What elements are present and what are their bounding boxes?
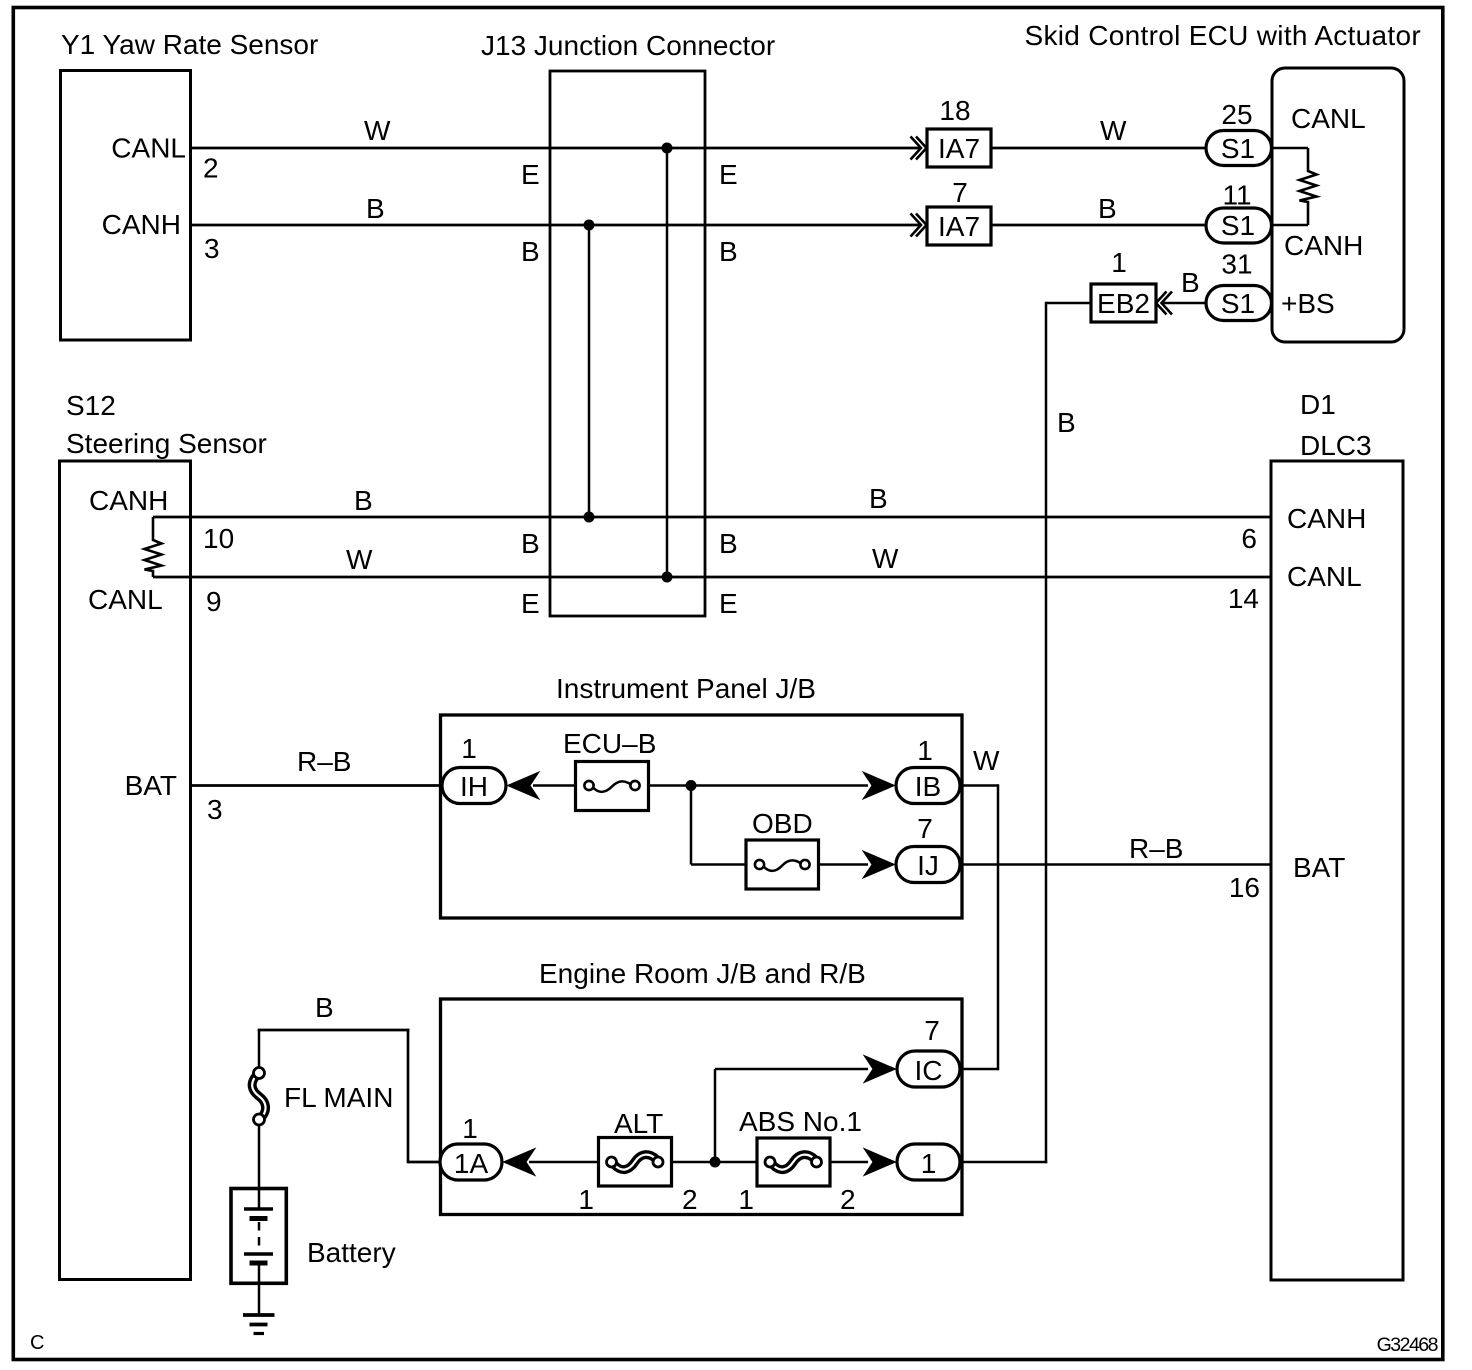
svg-text:E: E bbox=[719, 159, 738, 190]
fuse OBD element bbox=[755, 860, 764, 869]
junction node on CANH in J13 bbox=[584, 220, 595, 231]
ground bbox=[243, 1313, 275, 1317]
connector IA7 (W wire) bbox=[927, 129, 991, 167]
wire W: IB down to IC bbox=[960, 784, 998, 787]
svg-text:Instrument Panel J/B: Instrument Panel J/B bbox=[556, 673, 816, 704]
junction node lower CANL in J13 bbox=[662, 572, 673, 583]
svg-text:1: 1 bbox=[738, 1184, 754, 1215]
svg-text:6: 6 bbox=[1241, 523, 1257, 554]
svg-text:B: B bbox=[719, 528, 738, 559]
junction node at ALT output bbox=[710, 1157, 721, 1168]
wire R-B: IJ to DLC3 pin16 bbox=[960, 863, 1271, 866]
svg-text:7: 7 bbox=[952, 177, 968, 208]
svg-text:CANH: CANH bbox=[89, 485, 168, 516]
svg-text:Battery: Battery bbox=[307, 1237, 396, 1268]
connector IA7 pin 7 chevron bbox=[911, 214, 927, 237]
connector S1 pin 31 bbox=[1206, 286, 1272, 321]
wire: branch up to IC bbox=[714, 1069, 717, 1162]
svg-text:7: 7 bbox=[924, 1015, 940, 1046]
svg-text:R–B: R–B bbox=[1129, 833, 1183, 864]
svg-text:CANH: CANH bbox=[102, 209, 181, 240]
svg-text:E: E bbox=[521, 588, 540, 619]
svg-text:S12: S12 bbox=[66, 390, 116, 421]
wire R-B: S12 BAT to IH bbox=[191, 784, 444, 787]
svg-text:1: 1 bbox=[917, 735, 933, 766]
svg-text:DLC3: DLC3 bbox=[1300, 430, 1372, 461]
connector S1 pin 11 bbox=[1206, 208, 1272, 243]
fusible link FL MAIN bbox=[258, 1030, 261, 1068]
svg-text:CANL: CANL bbox=[1291, 103, 1366, 134]
fuse OBD box bbox=[746, 840, 819, 889]
junction node lower CANH in J13 bbox=[584, 512, 595, 523]
svg-text:B: B bbox=[366, 193, 385, 224]
svg-text:IA7: IA7 bbox=[938, 133, 980, 164]
D1 DLC3 box bbox=[1271, 461, 1403, 1280]
connector 1A bbox=[440, 1144, 502, 1180]
svg-text:W: W bbox=[346, 544, 373, 575]
svg-text:CANH: CANH bbox=[1287, 503, 1366, 534]
wire B: EB2 down to engine room bbox=[1046, 302, 1091, 305]
svg-text:18: 18 bbox=[939, 95, 970, 126]
svg-text:S1: S1 bbox=[1221, 288, 1255, 319]
arrow into IB bbox=[863, 772, 895, 799]
svg-text:D1: D1 bbox=[1300, 389, 1336, 420]
wire: battery to ground bbox=[258, 1283, 261, 1315]
wire W: IA7 to S1 pin25 bbox=[991, 147, 1206, 150]
svg-text:IJ: IJ bbox=[917, 850, 939, 881]
svg-text:B: B bbox=[315, 992, 334, 1023]
svg-text:R–B: R–B bbox=[297, 746, 351, 777]
wire: FL MAIN to battery bbox=[258, 1125, 261, 1190]
connector S1 pin 25 bbox=[1206, 131, 1272, 166]
junction node after ECU-B bbox=[686, 780, 697, 791]
wire B: battery riser to 1A bbox=[407, 1029, 410, 1164]
S12 Steering Sensor box bbox=[60, 461, 191, 1280]
connector IA7 (B wire) bbox=[927, 207, 991, 245]
svg-text:11: 11 bbox=[1222, 180, 1251, 211]
wire J13 internal CANL vertical bbox=[666, 148, 669, 577]
svg-text:EB2: EB2 bbox=[1097, 288, 1150, 319]
arrow into 1A bbox=[504, 1149, 536, 1176]
svg-text:IA7: IA7 bbox=[938, 211, 980, 242]
terminating resistor in ECU bbox=[1272, 147, 1308, 150]
svg-text:S1: S1 bbox=[1221, 210, 1255, 241]
svg-text:Y1 Yaw Rate Sensor: Y1 Yaw Rate Sensor bbox=[61, 29, 318, 60]
svg-text:J13 Junction Connector: J13 Junction Connector bbox=[481, 30, 775, 61]
svg-text:C: C bbox=[30, 1332, 44, 1354]
fusible link ABS No.1 element bbox=[773, 1155, 815, 1170]
svg-text:ALT: ALT bbox=[614, 1108, 663, 1139]
svg-text:B: B bbox=[521, 236, 540, 267]
arrow into IC bbox=[864, 1056, 896, 1083]
wire W: S12 CANL to DLC3 pin14 bbox=[153, 576, 1271, 579]
wire: OBD fuse to IJ bbox=[819, 863, 869, 866]
svg-text:Engine Room J/B and R/B: Engine Room J/B and R/B bbox=[539, 958, 866, 989]
svg-text:B: B bbox=[521, 528, 540, 559]
svg-text:S1: S1 bbox=[1221, 133, 1255, 164]
Skid Control ECU box bbox=[1272, 68, 1404, 342]
fuse ECU-B box bbox=[576, 762, 649, 811]
svg-text:25: 25 bbox=[1221, 99, 1252, 130]
svg-text:E: E bbox=[719, 588, 738, 619]
wire B: S12 CANH to DLC3 pin6 bbox=[153, 516, 1271, 519]
svg-text:B: B bbox=[1181, 267, 1200, 298]
wire B: EB2 to S1 pin31 bbox=[1161, 302, 1206, 305]
J13 Junction Connector box bbox=[550, 71, 705, 616]
arrow into connector 1 bbox=[864, 1149, 896, 1176]
Engine Room J/B box bbox=[441, 999, 963, 1215]
svg-text:16: 16 bbox=[1229, 872, 1260, 903]
svg-text:W: W bbox=[872, 543, 899, 574]
svg-text:IB: IB bbox=[915, 771, 941, 802]
svg-text:BAT: BAT bbox=[125, 770, 177, 801]
wire: OBD branch down bbox=[690, 786, 693, 865]
svg-text:CANL: CANL bbox=[88, 584, 163, 615]
wire J13 internal CANH vertical bbox=[588, 225, 591, 517]
svg-text:1A: 1A bbox=[454, 1148, 489, 1179]
wire: ALT to ABS No.1 bbox=[672, 1161, 758, 1164]
svg-text:ABS No.1: ABS No.1 bbox=[739, 1106, 862, 1137]
connector IH bbox=[442, 768, 506, 804]
svg-text:1: 1 bbox=[462, 1113, 478, 1144]
fusible link ALT element bbox=[615, 1155, 657, 1170]
svg-text:3: 3 bbox=[207, 794, 223, 825]
svg-text:1: 1 bbox=[578, 1184, 594, 1215]
svg-text:CANH: CANH bbox=[1284, 230, 1363, 261]
svg-text:OBD: OBD bbox=[752, 808, 813, 839]
connector EB2 bbox=[1091, 284, 1156, 322]
svg-text:2: 2 bbox=[840, 1184, 856, 1215]
svg-text:9: 9 bbox=[206, 586, 222, 617]
svg-text:Skid Control ECU with Actuator: Skid Control ECU with Actuator bbox=[1025, 20, 1422, 51]
wire: connector 1 to EB2 riser bbox=[960, 1161, 1047, 1164]
svg-text:E: E bbox=[521, 159, 540, 190]
connector EB2 chevron bbox=[1156, 292, 1172, 315]
connector IA7 pin 18 chevron bbox=[911, 137, 927, 160]
wire: 1A arrow to ALT fuse bbox=[529, 1161, 599, 1164]
svg-text:14: 14 bbox=[1228, 583, 1259, 614]
svg-text:FL MAIN: FL MAIN bbox=[284, 1082, 393, 1113]
svg-text:1: 1 bbox=[1111, 247, 1127, 278]
connector IB bbox=[896, 768, 960, 804]
svg-text:31: 31 bbox=[1221, 249, 1252, 280]
svg-text:Steering Sensor: Steering Sensor bbox=[66, 428, 267, 459]
battery bbox=[231, 1189, 286, 1284]
svg-text:7: 7 bbox=[917, 813, 933, 844]
svg-text:BAT: BAT bbox=[1293, 852, 1345, 883]
wire B: IA7 to S1 pin11 bbox=[991, 224, 1206, 227]
Y1 Yaw Rate Sensor box bbox=[61, 71, 191, 341]
fuse ABS No.1 box bbox=[757, 1138, 830, 1186]
svg-text:B: B bbox=[1057, 407, 1076, 438]
arrow into IJ bbox=[863, 851, 895, 878]
connector IC bbox=[897, 1051, 960, 1087]
svg-text:W: W bbox=[364, 115, 391, 146]
svg-text:B: B bbox=[1098, 193, 1117, 224]
svg-text:W: W bbox=[1100, 115, 1127, 146]
svg-text:W: W bbox=[973, 745, 1000, 776]
wire CANH B: Y1 pin3 to IA7 bbox=[191, 224, 921, 227]
connector 1 (engine room) bbox=[897, 1144, 960, 1180]
terminating resistor in S12 bbox=[145, 517, 162, 577]
svg-text:1: 1 bbox=[461, 733, 477, 764]
svg-text:CANL: CANL bbox=[1287, 561, 1362, 592]
svg-text:2: 2 bbox=[203, 153, 219, 184]
svg-text:IC: IC bbox=[915, 1055, 943, 1086]
wire: ECU-B fuse to IB bbox=[649, 784, 869, 787]
svg-text:1: 1 bbox=[921, 1148, 937, 1179]
svg-text:+BS: +BS bbox=[1281, 288, 1335, 319]
junction node on CANL in J13 bbox=[662, 143, 673, 154]
Instrument Panel J/B box bbox=[441, 715, 963, 918]
svg-text:B: B bbox=[869, 483, 888, 514]
svg-text:B: B bbox=[719, 236, 738, 267]
wire CANL W: Y1 pin2 to IA7 bbox=[191, 147, 921, 150]
svg-text:ECU–B: ECU–B bbox=[563, 728, 656, 759]
connector IJ bbox=[896, 847, 960, 883]
svg-text:10: 10 bbox=[203, 523, 234, 554]
wire: ABS No.1 to connector 1 bbox=[830, 1161, 868, 1164]
arrow into IH bbox=[508, 772, 540, 799]
wire: IH arrow to ECU-B fuse bbox=[533, 784, 576, 787]
fuse ECU-B element bbox=[584, 781, 593, 790]
svg-text:B: B bbox=[354, 485, 373, 516]
fuse ALT box bbox=[599, 1138, 672, 1187]
svg-text:IH: IH bbox=[460, 771, 488, 802]
svg-text:G32468: G32468 bbox=[1377, 1334, 1438, 1356]
svg-text:CANL: CANL bbox=[111, 133, 186, 164]
svg-text:3: 3 bbox=[204, 233, 220, 264]
svg-text:2: 2 bbox=[682, 1184, 698, 1215]
